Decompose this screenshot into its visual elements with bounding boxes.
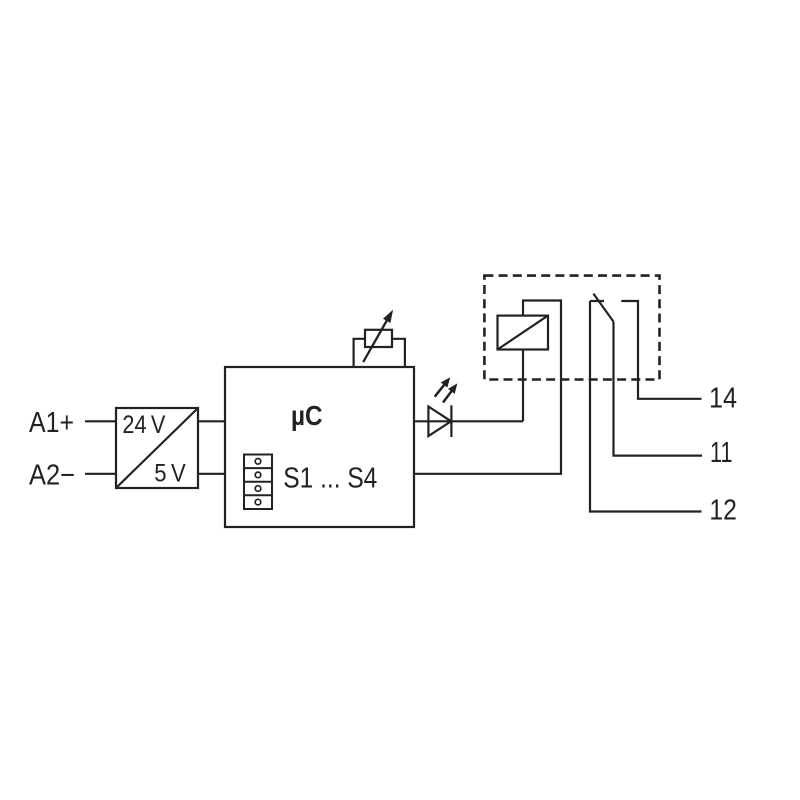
LED emission arrow 2 — [443, 383, 457, 402]
wire NC to terminal 12 — [590, 301, 702, 512]
wire common to terminal 11 — [614, 322, 703, 456]
svg-text:11: 11 — [710, 437, 733, 469]
svg-text:A2−: A2− — [29, 459, 75, 491]
svg-text:µC: µC — [291, 400, 323, 431]
contact NC fixed stub — [590, 300, 604, 302]
wire converter to uC lower — [198, 473, 225, 475]
LED emission arrow 1 — [435, 377, 451, 397]
wire uC to LED — [414, 420, 523, 422]
power converter 24V/5V — [116, 408, 198, 488]
potentiometer R1 body — [365, 330, 392, 347]
wire coil loop to uC — [414, 301, 561, 474]
wire A2- lead — [85, 473, 116, 475]
relay coil K1 — [498, 316, 549, 350]
potentiometer arrow — [363, 310, 393, 363]
svg-text:A1+: A1+ — [29, 407, 74, 439]
relay enclosure (dashed) — [484, 276, 659, 380]
svg-text:S1 ... S4: S1 ... S4 — [283, 463, 377, 495]
microcontroller box U1 — [225, 367, 414, 527]
wire converter to uC upper — [198, 420, 225, 422]
svg-text:24 V: 24 V — [122, 411, 165, 439]
LED D1 — [428, 405, 451, 437]
contact blade — [593, 294, 613, 322]
svg-text:12: 12 — [709, 495, 737, 527]
svg-text:5 V: 5 V — [154, 460, 186, 488]
wire LED to relay coil — [522, 350, 524, 422]
DIP switch S1-S4 — [244, 455, 272, 510]
svg-text:14: 14 — [709, 382, 737, 414]
contact NO stub and wire to terminal 14 — [621, 301, 701, 399]
potentiometer bracket wires — [354, 339, 405, 367]
wire A1+ lead — [85, 420, 116, 422]
